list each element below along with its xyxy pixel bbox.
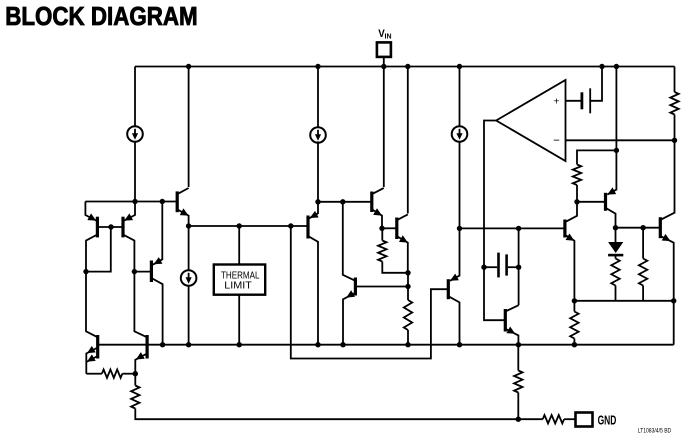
svg-text:GND: GND (598, 412, 617, 427)
svg-text:IN: IN (385, 31, 392, 40)
svg-text:−: − (553, 135, 560, 147)
svg-text:BLOCK DIAGRAM: BLOCK DIAGRAM (5, 3, 198, 31)
svg-text:+: + (553, 95, 559, 107)
svg-text:LIMIT: LIMIT (224, 281, 252, 292)
svg-text:LT1083/4/5 BD: LT1083/4/5 BD (638, 428, 672, 434)
